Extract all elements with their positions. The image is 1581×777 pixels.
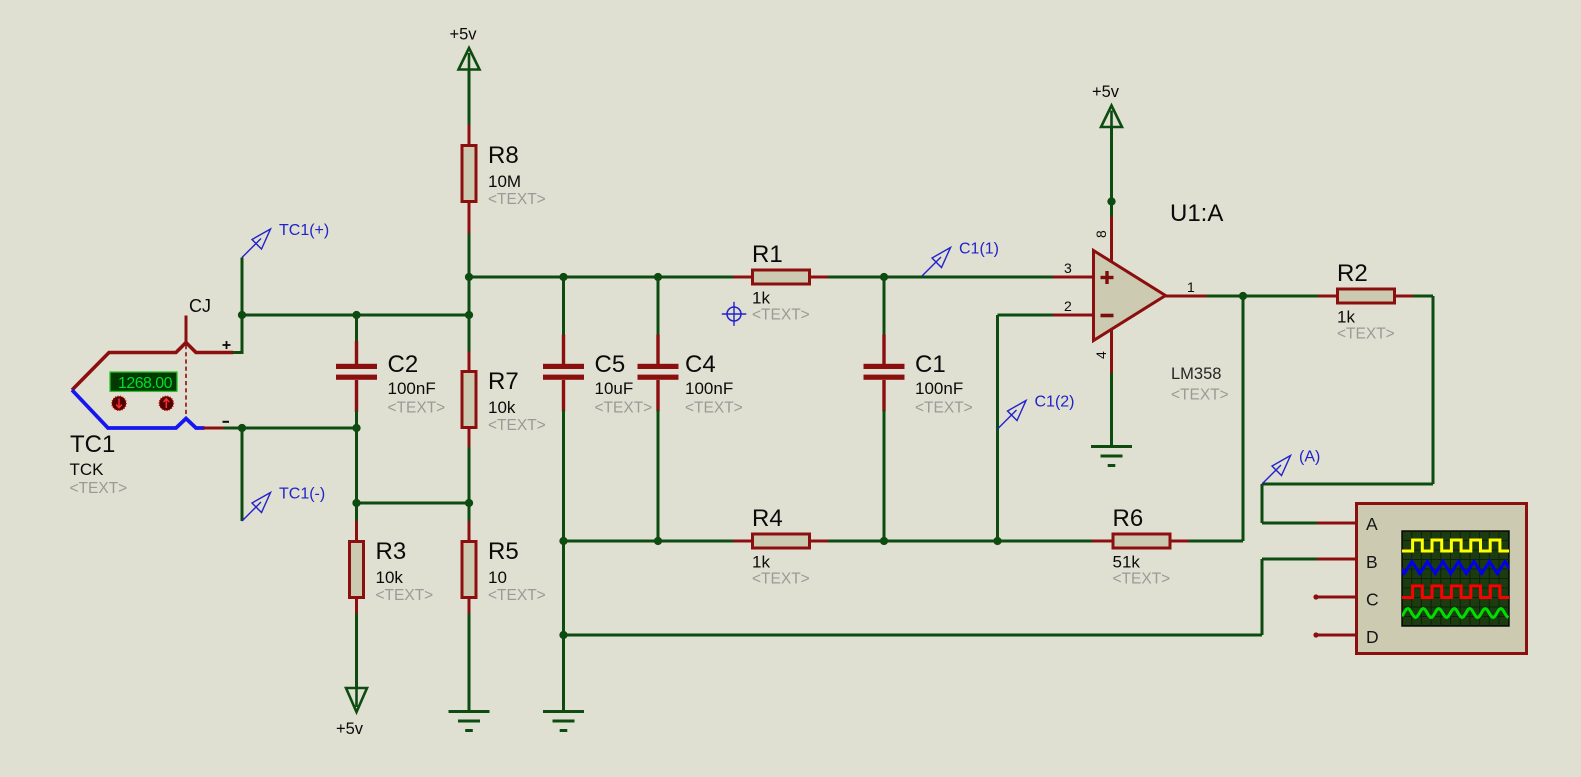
junction node C4 rowD [654, 537, 662, 545]
wire TC1 - terminal [224, 427, 244, 430]
ground [543, 712, 584, 731]
label TCK [70, 460, 105, 479]
pin R3 bottom [355, 597, 358, 615]
pin C5 top [562, 335, 565, 365]
svg-text:3: 3 [1064, 260, 1072, 276]
svg-text:2: 2 [1064, 298, 1072, 314]
junction node C4 rowA [654, 273, 662, 281]
wire C1 top [883, 277, 886, 336]
wire TC1 + terminal [233, 351, 244, 354]
pin R2 left [1318, 295, 1338, 298]
svg-text:<TEXT>: <TEXT> [915, 400, 973, 417]
wire R3 to +5v-down [355, 614, 358, 689]
svg-text:<TEXT>: <TEXT> [1113, 571, 1171, 588]
svg-text:TC1(-): TC1(-) [279, 486, 325, 503]
pin scope B [1317, 558, 1355, 561]
svg-text:10k: 10k [376, 568, 404, 587]
svg-text:1268.00: 1268.00 [118, 375, 173, 392]
svg-text:R6: R6 [1113, 505, 1144, 532]
label TC1 [70, 431, 115, 458]
pin R7 bottom [468, 427, 471, 449]
svg-text:A: A [1366, 514, 1378, 534]
pin C1 bottom [882, 380, 885, 412]
pin scope C [1313, 594, 1355, 599]
TC1 minus mark [223, 421, 230, 423]
wire row-D right [1189, 540, 1244, 543]
wire to scope B [1262, 558, 1319, 561]
wire A-net down [1261, 484, 1264, 523]
CJ dashed junction line [185, 345, 187, 417]
pin R3 top [355, 521, 358, 541]
capacitor C2 [336, 351, 445, 417]
wire A-net horizontal [1262, 483, 1433, 486]
pin R1 right [810, 276, 830, 279]
op-amp U1 [1064, 200, 1229, 404]
svg-text:R7: R7 [488, 368, 519, 395]
pin R2 right [1395, 295, 1415, 298]
svg-text:10: 10 [488, 568, 507, 587]
pin R4 left [734, 540, 753, 543]
svg-text:+5v: +5v [1092, 83, 1120, 101]
wire C1(2) vertical [996, 315, 999, 541]
wire label (A) [1262, 449, 1320, 485]
pin scope D [1313, 632, 1355, 637]
svg-text:1k: 1k [1337, 308, 1355, 327]
svg-text:TCK: TCK [70, 460, 105, 479]
wire pin2 horizontal [998, 314, 1055, 317]
wire TC1(-) stub [241, 428, 244, 521]
wire row-D mid [828, 540, 1094, 543]
+5v power symbol [449, 26, 479, 70]
pin R5 bottom [468, 597, 471, 615]
wire R8 to node A-row [468, 234, 471, 278]
svg-text:+5v: +5v [449, 26, 477, 44]
svg-text:<TEXT>: <TEXT> [595, 400, 653, 417]
oscilloscope body [1357, 504, 1527, 654]
svg-text:<TEXT>: <TEXT> [488, 417, 546, 434]
svg-text:100nF: 100nF [685, 379, 733, 398]
svg-text:<TEXT>: <TEXT> [752, 571, 810, 588]
svg-text:D: D [1366, 627, 1379, 647]
wire C2 to row-C [355, 411, 358, 429]
svg-text:1k: 1k [752, 553, 770, 572]
wire TC1(+) stub [241, 258, 244, 353]
junction node TC1+ rowB [238, 311, 246, 319]
pin R6 left [1092, 540, 1113, 543]
svg-text:C: C [1366, 590, 1379, 610]
junction node C1 rowD [880, 537, 888, 545]
wire row-F up [1261, 559, 1264, 635]
svg-text:(A): (A) [1299, 449, 1320, 466]
resistor R2 [1337, 260, 1395, 343]
pin C1 top [882, 335, 885, 365]
label TC1 TEXT [70, 480, 128, 497]
junction node R7 rowB [465, 311, 473, 319]
svg-text:10uF: 10uF [595, 379, 634, 398]
wire C4 top [657, 277, 660, 336]
svg-text:C1(2): C1(2) [1035, 394, 1075, 411]
junction node R3 rowE [352, 499, 360, 507]
svg-text:1: 1 [1187, 279, 1195, 295]
resistor R4 [752, 505, 810, 588]
pin TC1 - terminal [203, 427, 225, 430]
wire R5 to ground [468, 614, 471, 712]
wire C2col row-C to R3 [355, 428, 358, 523]
svg-text:R3: R3 [376, 538, 407, 565]
label CJ [189, 296, 211, 316]
svg-text:<TEXT>: <TEXT> [752, 307, 810, 324]
wire C5 top [562, 277, 565, 336]
junction node C5 rowA [559, 273, 567, 281]
svg-text:C1(1): C1(1) [959, 241, 999, 258]
svg-text:U1:A: U1:A [1170, 200, 1223, 227]
pin R5 top [468, 521, 471, 541]
wire row-B CJ [242, 314, 469, 317]
junction node R5 rowE [465, 499, 473, 507]
scope trace A (yellow square wave) [1402, 540, 1509, 551]
svg-text:TC1(+): TC1(+) [279, 222, 329, 239]
svg-text:<TEXT>: <TEXT> [376, 587, 434, 604]
svg-text:4: 4 [1093, 351, 1109, 359]
pin R8 bottom [468, 202, 471, 235]
svg-text:10k: 10k [488, 398, 516, 417]
svg-text:100nF: 100nF [388, 379, 436, 398]
wire R7 to row-E [468, 447, 471, 523]
svg-text:<TEXT>: <TEXT> [488, 587, 546, 604]
pin R7 top [468, 352, 471, 372]
junction node C2 rowC [352, 424, 360, 432]
pin R8 top [468, 125, 471, 146]
svg-text:8: 8 [1093, 230, 1109, 238]
wire row-C [242, 427, 357, 430]
pin U1 input 3 [1053, 276, 1093, 279]
wire R2 to corner [1413, 295, 1433, 298]
thermocouple TC1 hot-side outline [72, 343, 233, 391]
wire row-A left [469, 276, 735, 279]
pin R6 right [1168, 540, 1190, 543]
wire output [1207, 295, 1320, 298]
capacitor C4 [638, 351, 743, 417]
junction node output [1239, 292, 1247, 300]
svg-text:C1: C1 [915, 351, 946, 378]
ground [449, 712, 490, 731]
capacitor C1 [864, 351, 973, 417]
wire A-net to scope [1262, 522, 1319, 525]
pin C4 top [656, 335, 659, 365]
scope trace C (red square wave) [1402, 586, 1509, 598]
svg-text:R2: R2 [1337, 260, 1368, 287]
svg-text:TC1: TC1 [70, 431, 115, 458]
wire +5v to pin8 [1110, 127, 1113, 218]
oscilloscope screen [1402, 531, 1509, 626]
pin C2 bottom [355, 380, 358, 412]
pin U1 8 [1110, 217, 1113, 264]
scope trace D (green sine wave) [1402, 609, 1509, 618]
pin CJ stub [185, 316, 188, 345]
wire C2 top [355, 315, 358, 343]
svg-text:10M: 10M [488, 172, 521, 191]
resistor R1 [752, 241, 810, 324]
svg-text:51k: 51k [1113, 553, 1141, 572]
+5v power symbol [1092, 83, 1122, 127]
resistor R5 [462, 538, 546, 604]
svg-text:+5v: +5v [336, 720, 364, 738]
svg-text:CJ: CJ [189, 296, 211, 316]
junction node +5v pin8 [1107, 197, 1115, 205]
pin U1 4 [1110, 328, 1113, 375]
resistor R6 [1113, 505, 1171, 588]
svg-text:C2: C2 [388, 351, 419, 378]
wire row-D left [564, 540, 736, 543]
wire label TC1(-) [242, 486, 325, 522]
junction node C5 rowF [559, 631, 567, 639]
junction node C2 rowB [352, 311, 360, 319]
svg-text:LM358: LM358 [1171, 365, 1221, 383]
pin U1 output 1 [1164, 295, 1208, 298]
wire label C1(2) [998, 394, 1075, 430]
TC1 display 1268.00 [110, 372, 177, 392]
wire +5v to R8 [468, 70, 471, 127]
svg-text:C4: C4 [685, 351, 716, 378]
capacitor C5 [543, 351, 652, 417]
wire R7 top [468, 315, 471, 353]
wire C1 to row-D [883, 410, 886, 541]
+5v power symbol (down) [336, 688, 367, 738]
wire row-F [564, 634, 1263, 637]
svg-text:1k: 1k [752, 289, 770, 308]
thermocouple TC1 cold-side outline [72, 390, 205, 428]
TC1 down-button [112, 396, 126, 410]
wire row-E [357, 502, 470, 505]
junction node C1 rowA [880, 273, 888, 281]
resistor R8 [462, 142, 546, 208]
svg-text:C5: C5 [595, 351, 626, 378]
svg-text:100nF: 100nF [915, 379, 963, 398]
wire row-A right to op-amp [828, 276, 1054, 279]
pin U1 input 2 [1053, 314, 1093, 317]
svg-text:R8: R8 [488, 142, 519, 169]
wire rowA to rowB [468, 277, 471, 315]
svg-text:<TEXT>: <TEXT> [1171, 387, 1229, 404]
scope trace B (blue triangle wave) [1397, 562, 1513, 574]
svg-text:<TEXT>: <TEXT> [488, 191, 546, 208]
pin C2 top [355, 341, 358, 364]
svg-text:R5: R5 [488, 538, 519, 565]
wire A-net vertical right [1432, 296, 1435, 484]
origin marker [722, 302, 747, 326]
svg-text:B: B [1366, 552, 1378, 572]
wire C4 to row-D [657, 410, 660, 541]
ground [1091, 447, 1132, 466]
pin R4 right [810, 540, 830, 543]
svg-text:R1: R1 [752, 241, 783, 268]
junction node C5 rowD [559, 537, 567, 545]
svg-text:R4: R4 [752, 505, 783, 532]
pin C4 bottom [656, 380, 659, 412]
pin scope A [1317, 522, 1355, 525]
TC1 plus mark [223, 341, 231, 349]
pin R1 left [734, 276, 753, 279]
svg-text:<TEXT>: <TEXT> [685, 400, 743, 417]
svg-text:<TEXT>: <TEXT> [1337, 326, 1395, 343]
junction node R8/R7/rowA [465, 273, 473, 281]
wire feedback vertical [1242, 296, 1245, 541]
wire C5 to ground [562, 410, 565, 712]
svg-text:<TEXT>: <TEXT> [70, 480, 128, 497]
svg-text:<TEXT>: <TEXT> [388, 400, 446, 417]
pin C5 bottom [562, 380, 565, 412]
wire label TC1(+) [242, 222, 329, 258]
TC1 up-button [159, 396, 173, 410]
wire label C1(1) [922, 241, 999, 277]
resistor R7 [462, 368, 546, 434]
junction node TC1- rowC [238, 424, 246, 432]
junction node C1(2) rowD [993, 537, 1001, 545]
resistor R3 [350, 538, 434, 604]
wire pin4 to ground [1110, 373, 1113, 447]
